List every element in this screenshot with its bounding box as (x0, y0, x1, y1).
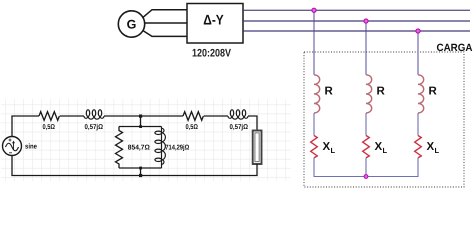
wire (204, 115, 228, 117)
svg-text:sine: sine (25, 143, 37, 151)
resistor XL branch 2 (363, 136, 370, 158)
svg-text:0,5Ω: 0,5Ω (43, 124, 56, 131)
transformer block U1 Δ-Y (187, 4, 243, 44)
wire drop phase B to branch 2 (365, 21, 367, 75)
inductor R branch 1 (314, 75, 320, 113)
svg-text:R: R (325, 86, 334, 98)
wire drop phase C to branch 3 (417, 31, 419, 75)
svg-text:L: L (331, 146, 336, 155)
load ZL (boxed impedance) (253, 131, 262, 165)
wire down from parallel block (140, 168, 142, 176)
parallel block top rail (119, 126, 162, 128)
wire (60, 115, 84, 117)
grid background (1, 99, 291, 181)
wire branch 3 mid (417, 113, 419, 136)
CARGA dashed box (304, 42, 473, 187)
svg-text:CARGA: CARGA (437, 42, 473, 54)
wire generator to transformer (middle) (145, 22, 188, 24)
resistor R1 0,5ohm (39, 112, 59, 121)
wire load to bottom (256, 164, 258, 176)
node A junction dot (312, 8, 316, 12)
wire drop phase A to branch 1 (313, 10, 315, 75)
wire branch 2 mid (365, 113, 367, 136)
resistor R2 0,5ohm (183, 112, 203, 121)
inductor Lp 714,29johm (vertical) (155, 127, 166, 169)
svg-text:0,57jΩ: 0,57jΩ (85, 123, 104, 131)
node parallel top junction dot (139, 115, 142, 118)
node rail bottom dot (139, 167, 142, 170)
resistor XL branch 1 (311, 136, 318, 158)
phase line C (244, 30, 471, 32)
node B junction dot (364, 19, 368, 23)
wire generator to transformer (bottom) (143, 31, 187, 37)
svg-text:R: R (377, 86, 386, 98)
svg-text:714,29jΩ: 714,29jΩ (165, 144, 189, 152)
parallel block bottom rail (119, 167, 162, 169)
svg-text:X: X (323, 141, 331, 153)
svg-text:120:208V: 120:208V (192, 48, 232, 60)
wire branch 2 bottom (365, 158, 367, 177)
svg-text:0,57jΩ: 0,57jΩ (230, 123, 249, 131)
svg-text:X: X (375, 141, 383, 153)
wire (104, 115, 183, 117)
bottom return wire (11, 175, 257, 177)
node parallel bottom junction dot (139, 174, 142, 177)
wire branch 1 bottom (313, 158, 315, 177)
resistor Rp 854,7ohm (vertical) (116, 127, 123, 168)
svg-text:Δ-Y: Δ-Y (203, 11, 224, 27)
svg-text:R: R (429, 86, 438, 98)
wire branch 1 mid (313, 113, 315, 136)
node N junction dot (364, 175, 368, 179)
inductor R branch 3 (418, 75, 424, 113)
wire branch 3 bottom (417, 158, 419, 177)
svg-text:X: X (427, 141, 435, 153)
svg-text:L: L (383, 146, 388, 155)
svg-text:G: G (127, 18, 137, 32)
wire generator to transformer (top) (143, 10, 187, 18)
phase line A (244, 9, 471, 11)
generator G (118, 11, 144, 37)
inductor R branch 2 (366, 75, 372, 113)
node rail top dot (139, 125, 142, 128)
resistor XL branch 3 (415, 136, 422, 158)
AC source V1 sine (3, 116, 22, 176)
svg-text:L: L (435, 146, 440, 155)
inductor L2 0,57johm (228, 110, 248, 120)
top wire left (11, 115, 39, 117)
neutral bottom wire (314, 176, 418, 178)
inductor L1 0,57johm (84, 110, 104, 120)
wire down to parallel block (140, 116, 142, 127)
phase line B (244, 20, 471, 22)
wire to load corner (248, 116, 257, 131)
node C junction dot (416, 29, 420, 33)
svg-text:854,7Ω: 854,7Ω (128, 145, 150, 152)
svg-text:0,5Ω: 0,5Ω (186, 124, 199, 131)
